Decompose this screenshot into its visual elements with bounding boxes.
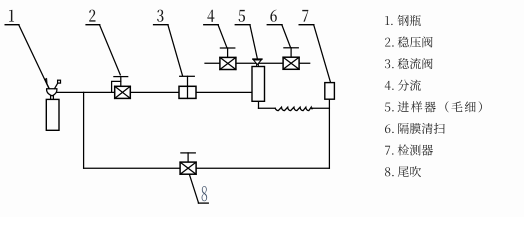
detector U7 body	[325, 83, 335, 100]
underline label 8	[198, 202, 208, 204]
legend line 4: 4. 分流	[385, 80, 421, 91]
valve V6 handle T-bar	[284, 47, 298, 49]
valve V8 X diagonals	[180, 162, 196, 174]
valve V2 stem	[120, 77, 122, 87]
injector septum cap bar	[253, 58, 262, 60]
injector U5 body	[252, 67, 265, 102]
valve V8 (makeup gas) stem	[187, 153, 189, 162]
valve V2 X diagonals	[115, 86, 131, 98]
valve V2 handle T-bar	[114, 76, 128, 78]
legend line 8: 8. 尾吹	[385, 166, 421, 177]
legend line 6: 6. 隔膜清扫	[385, 123, 445, 134]
valve V3 handle T-bar	[180, 75, 195, 77]
valve V3 center division	[187, 86, 189, 98]
label digit 8	[202, 186, 208, 201]
wire: bottom makeup line to detector riser	[84, 167, 330, 169]
leader line label 4	[218, 25, 227, 47]
wire: main carrier line from regulator to injector	[57, 91, 253, 93]
underline label 5	[235, 24, 250, 26]
injector septum cap cone	[254, 60, 262, 65]
cylinder C1 body	[46, 99, 59, 130]
wire: split/purge top line valve4 vent to valve6 vent	[205, 62, 310, 64]
leader line label 6	[282, 25, 291, 47]
regulator outlet port square	[58, 80, 61, 83]
leader line label 3	[168, 25, 183, 75]
wire: column line left of coil	[259, 107, 276, 109]
leader line label 8	[189, 174, 198, 203]
leader arrowhead label 1	[44, 78, 47, 84]
valve V3 body	[179, 86, 196, 98]
regulator left arm	[47, 84, 50, 89]
label digit 5	[239, 10, 245, 22]
regulator bowl on cylinder	[47, 89, 57, 96]
label digit 7	[302, 10, 308, 22]
valve V4 handle T-bar	[220, 47, 234, 49]
legend line 3: 3. 稳流阀	[385, 58, 433, 69]
valve V2 body	[115, 86, 131, 98]
legend line 5: 5. 进样器（毛细）	[385, 101, 482, 112]
underline label 3	[154, 24, 168, 26]
valve V2 (pressure regulator) feedback bracket	[112, 81, 121, 92]
valve V6 (septum purge) stem	[290, 48, 292, 57]
valve V4 body	[220, 57, 236, 69]
label digit 4	[207, 10, 214, 22]
leader line label 1	[19, 25, 49, 88]
wire: junction tee down-leg at x=83.6	[83, 92, 85, 168]
valve V3 (flow controller) stem through body	[187, 76, 189, 98]
legend line 1: 1. 钢瓶	[385, 15, 421, 26]
label digit 2	[89, 10, 95, 22]
wire: injector outlet down-leg	[258, 101, 260, 108]
leader line label 7	[314, 25, 331, 82]
underline label 7	[299, 24, 314, 26]
cylinder C1 neck	[51, 96, 54, 100]
underline label 2	[86, 24, 100, 26]
valve V6 body	[283, 57, 299, 69]
underline label 6	[267, 24, 282, 26]
column coil	[275, 107, 312, 110]
injector cap neck	[257, 64, 259, 66]
wire: column line right of coil	[313, 107, 330, 109]
label digit 1	[9, 10, 14, 22]
valve V8 handle T-bar	[181, 152, 195, 154]
underline label 4	[204, 24, 218, 26]
leader line label 5	[250, 25, 257, 58]
valve V4 X diagonals	[220, 57, 236, 69]
label digit 3	[157, 10, 163, 22]
leader line label 2	[100, 25, 121, 75]
valve V4 (split vent) stem	[227, 48, 229, 57]
legend line 2: 2. 稳压阀	[385, 36, 433, 47]
legend line 7: 7. 检测器	[385, 145, 433, 156]
label digit 6	[270, 10, 276, 22]
underline label 1	[5, 24, 19, 26]
valve V8 body	[180, 162, 196, 174]
regulator right arm	[55, 83, 58, 89]
valve V6 X diagonals	[283, 57, 299, 69]
wire: detector riser	[328, 99, 330, 168]
